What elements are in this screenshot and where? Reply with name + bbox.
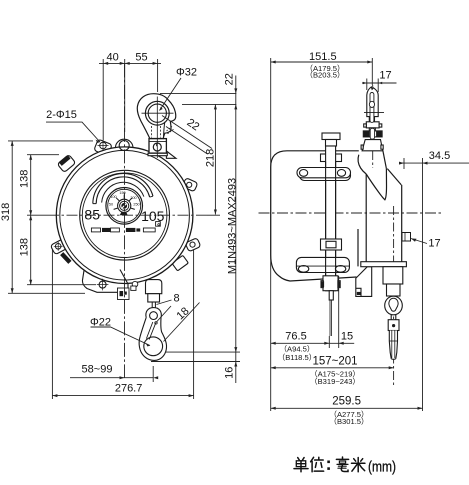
- svg-text:22: 22: [223, 73, 235, 85]
- svg-text:(mm): (mm): [368, 459, 396, 476]
- svg-text:（B319~243）: （B319~243）: [310, 377, 360, 386]
- svg-text:259.5: 259.5: [332, 396, 361, 408]
- svg-text:40: 40: [106, 52, 118, 64]
- svg-text:Φ22: Φ22: [90, 317, 111, 329]
- svg-text:58~99: 58~99: [82, 364, 113, 376]
- svg-text:218: 218: [205, 149, 217, 167]
- svg-text:276.7: 276.7: [115, 382, 143, 394]
- svg-text:318: 318: [0, 203, 12, 221]
- svg-text:16: 16: [223, 367, 235, 379]
- svg-text:200: 200: [130, 196, 136, 200]
- svg-text:17: 17: [379, 70, 391, 82]
- svg-text:（B203.5）: （B203.5）: [305, 70, 344, 79]
- svg-text:M1N493~MAX2493: M1N493~MAX2493: [226, 178, 238, 274]
- svg-text:105: 105: [141, 208, 165, 224]
- svg-text:157~201: 157~201: [312, 356, 357, 368]
- svg-text:（B118.5）: （B118.5）: [278, 353, 317, 362]
- svg-text:50: 50: [109, 203, 113, 207]
- svg-text:15: 15: [341, 330, 353, 342]
- svg-text:（B301.5）: （B301.5）: [329, 417, 368, 426]
- svg-text:8: 8: [173, 293, 179, 305]
- svg-text:85: 85: [84, 207, 100, 223]
- svg-text:138: 138: [18, 238, 30, 256]
- svg-text:2-Φ15: 2-Φ15: [46, 109, 77, 121]
- svg-text:17: 17: [428, 238, 440, 250]
- svg-text:55: 55: [135, 52, 147, 64]
- svg-text:250: 250: [133, 203, 139, 207]
- svg-text:Φ32: Φ32: [176, 67, 197, 79]
- svg-text:34.5: 34.5: [429, 150, 450, 162]
- svg-text:76.5: 76.5: [285, 330, 306, 342]
- svg-text:138: 138: [18, 170, 30, 188]
- svg-text:151.5: 151.5: [309, 51, 337, 63]
- svg-text:100: 100: [110, 195, 116, 199]
